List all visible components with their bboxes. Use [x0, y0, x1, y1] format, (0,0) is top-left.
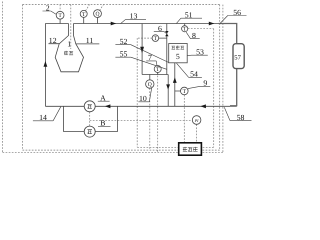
svg-text:1: 1	[67, 39, 71, 48]
svg-text:Q: Q	[95, 12, 99, 18]
svg-text:55: 55	[120, 50, 128, 59]
svg-text:A: A	[100, 94, 106, 103]
svg-text:52: 52	[120, 37, 128, 46]
svg-text:Q: Q	[148, 82, 152, 88]
svg-text:58: 58	[237, 113, 245, 122]
svg-text:T: T	[58, 13, 62, 19]
svg-text:10: 10	[139, 94, 147, 103]
svg-text:B: B	[100, 118, 105, 127]
svg-text:54: 54	[190, 70, 198, 79]
svg-text:T: T	[183, 27, 187, 33]
svg-text:13: 13	[130, 12, 138, 21]
svg-text:5: 5	[176, 52, 180, 61]
svg-text:8: 8	[192, 31, 196, 40]
svg-text:53: 53	[196, 48, 204, 57]
svg-text:T: T	[154, 36, 158, 42]
svg-text:PI: PI	[194, 118, 199, 123]
svg-text:9: 9	[203, 79, 207, 88]
svg-text:T: T	[183, 89, 187, 95]
svg-text:T: T	[156, 67, 160, 73]
svg-text:56: 56	[233, 8, 241, 17]
svg-text:51: 51	[185, 11, 193, 20]
svg-text:7: 7	[148, 53, 152, 62]
svg-text:12: 12	[49, 36, 57, 45]
svg-text:11: 11	[86, 36, 94, 45]
svg-text:2: 2	[46, 3, 50, 12]
svg-text:6: 6	[158, 24, 162, 33]
svg-text:14: 14	[39, 113, 47, 122]
svg-text:T: T	[82, 12, 86, 18]
svg-text:57: 57	[234, 54, 241, 61]
